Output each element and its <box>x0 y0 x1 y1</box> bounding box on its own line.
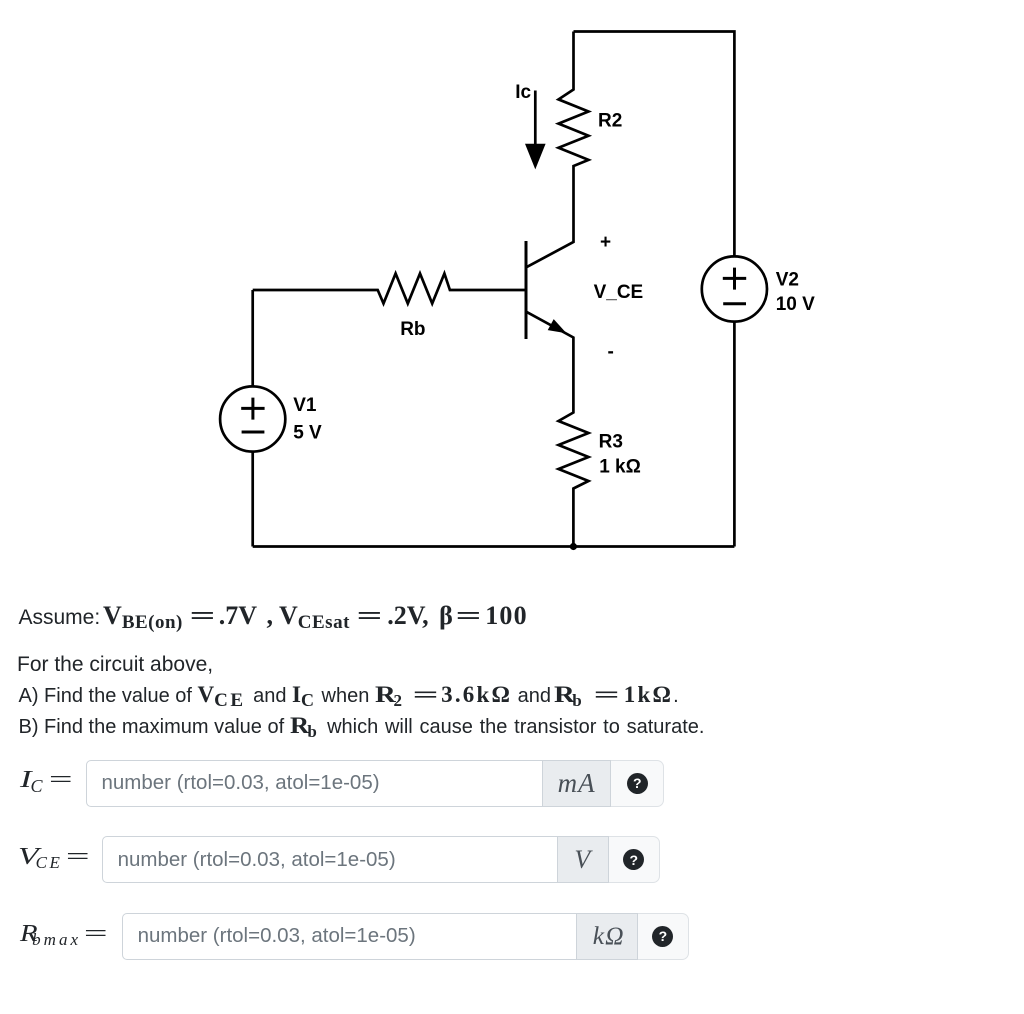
svg-text:5 V: 5 V <box>293 423 322 444</box>
svg-text:1 kΩ: 1 kΩ <box>599 456 641 477</box>
svg-text:Rb: Rb <box>400 319 425 340</box>
svg-text:V2: V2 <box>776 270 799 291</box>
svg-text:Ic: Ic <box>515 82 531 103</box>
svg-text:R2: R2 <box>598 110 622 131</box>
svg-text:10 V: 10 V <box>776 294 815 315</box>
svg-text:-: - <box>608 342 614 363</box>
svg-text:R3: R3 <box>599 431 623 452</box>
svg-text:V1: V1 <box>293 395 317 416</box>
svg-text:+: + <box>600 232 611 253</box>
svg-text:V_CE: V_CE <box>594 282 644 303</box>
